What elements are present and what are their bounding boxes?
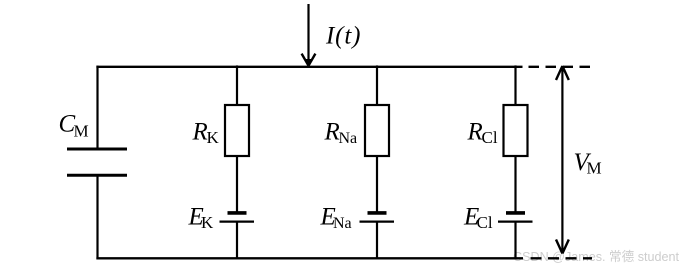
- wire R_Cl to battery: [514, 156, 516, 212]
- resistor R_K: [225, 105, 249, 156]
- label R_Na: [324, 119, 358, 148]
- svg-text:Cl: Cl: [477, 213, 493, 232]
- svg-text:R: R: [324, 119, 340, 146]
- svg-text:M: M: [587, 159, 602, 178]
- svg-text:M: M: [74, 122, 89, 141]
- label E_Cl: [463, 204, 493, 233]
- current source arrow I(t): [302, 4, 316, 66]
- label C_M: [59, 111, 89, 141]
- battery E_Cl: [498, 213, 533, 222]
- V_M measurement double arrow: [556, 66, 569, 254]
- wire R_K branch upper: [236, 65, 238, 106]
- wire E_Cl lower: [514, 222, 516, 260]
- wire bottom bus: [96, 257, 523, 259]
- svg-text:Na: Na: [333, 215, 352, 232]
- capacitor C_M: [67, 149, 127, 175]
- svg-text:R: R: [467, 119, 483, 146]
- battery E_Na: [360, 213, 395, 222]
- svg-text:R: R: [192, 119, 208, 146]
- resistor R_Na: [365, 105, 389, 156]
- battery E_K: [220, 213, 255, 222]
- resistor R_Cl: [504, 105, 528, 156]
- watermark CSDN: [513, 249, 679, 264]
- svg-text:CSDN @James. 常德 student: CSDN @James. 常德 student: [513, 249, 679, 264]
- label R_K: [192, 119, 220, 148]
- label I(t): [325, 23, 361, 50]
- svg-text:K: K: [207, 128, 220, 147]
- wire left vertical lower segment: [96, 175, 98, 259]
- label R_Cl: [467, 119, 498, 148]
- wire E_Na lower: [376, 222, 378, 260]
- wire top bus: [96, 66, 522, 68]
- wire top dashed extension: [529, 66, 592, 68]
- wire R_K to battery: [236, 156, 238, 212]
- label V_M: [574, 149, 602, 178]
- wire R_Cl branch upper: [514, 65, 516, 106]
- label E_K: [188, 204, 215, 233]
- wire E_K lower: [236, 222, 238, 260]
- svg-text:I(t): I(t): [325, 23, 361, 50]
- label E_Na: [320, 204, 352, 233]
- svg-text:K: K: [201, 213, 214, 232]
- svg-text:Na: Na: [339, 130, 358, 147]
- wire R_Na to battery: [376, 156, 378, 212]
- wire bottom dashed extension: [531, 257, 593, 259]
- wire R_Na branch upper: [376, 65, 378, 106]
- svg-text:Cl: Cl: [482, 128, 498, 147]
- wire left vertical upper segment: [96, 66, 98, 149]
